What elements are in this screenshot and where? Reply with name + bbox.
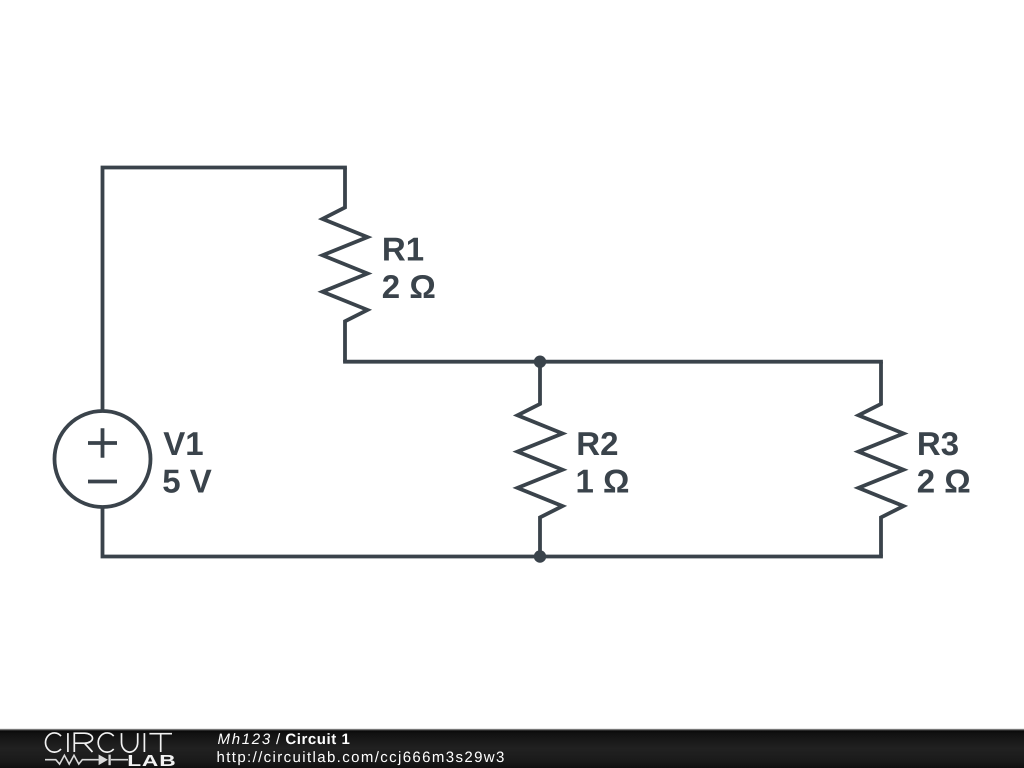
logo letter I — [143, 733, 145, 752]
logo letter T — [149, 734, 172, 752]
junction node dot bottom (ground net) — [534, 550, 546, 562]
svg-text:V1: V1 — [163, 425, 203, 462]
svg-text:R2: R2 — [576, 425, 618, 462]
svg-text:LAB: LAB — [127, 753, 176, 768]
logo letter C — [46, 733, 61, 752]
svg-text:R3: R3 — [917, 425, 959, 462]
svg-text:5 V: 5 V — [162, 462, 212, 499]
logo letter I — [67, 733, 69, 752]
wire from V1 positive terminal up and across to R1 — [103, 168, 347, 412]
footer bar — [0, 729, 1024, 768]
resistor R2 — [518, 362, 563, 557]
logo symbol wire after diode — [111, 759, 128, 761]
resistor R3 — [859, 362, 904, 557]
logo diode cathode bar — [108, 755, 110, 766]
svg-text:1 Ω: 1 Ω — [576, 462, 630, 499]
svg-text:R1: R1 — [382, 231, 424, 268]
logo letter U — [122, 733, 138, 752]
resistor R1 — [323, 168, 368, 362]
junction node dot top (R1/R2/R3 net) — [534, 356, 546, 368]
svg-text:2 Ω: 2 Ω — [917, 462, 971, 499]
wire middle node from R1 across to R3 — [343, 360, 883, 364]
logo wordmark CIRCUIT — [46, 733, 172, 752]
svg-text:2 Ω: 2 Ω — [382, 268, 436, 305]
logo schematic symbol: wire with resistor zigzag — [45, 755, 128, 766]
svg-text:http://circuitlab.com/ccj666m3: http://circuitlab.com/ccj666m3s29w3 — [217, 749, 506, 766]
voltage source V1 — [55, 411, 151, 507]
logo letter R — [74, 733, 92, 752]
logo diode triangle — [99, 755, 108, 766]
logo letter C — [98, 733, 113, 752]
logo LAB text — [127, 753, 176, 768]
wire bottom node from V1 negative terminal across to R3 bottom — [103, 507, 883, 557]
svg-text:Mh123 / Circuit 1: Mh123 / Circuit 1 — [218, 731, 351, 748]
